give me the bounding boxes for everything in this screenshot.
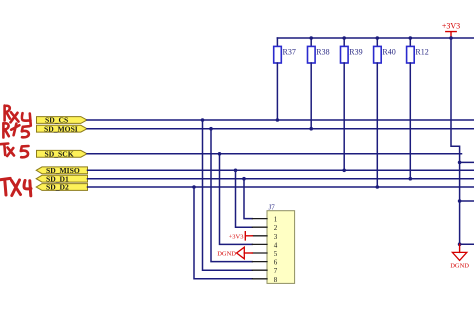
svg-text:J7: J7: [269, 203, 276, 211]
wire branch B to right edge: [460, 200, 474, 202]
wire SD_MISO to J7 pin 2: [234, 169, 253, 228]
pin 8: [252, 276, 277, 284]
annotation TX4 (handwritten): [0, 178, 31, 195]
svg-text:5: 5: [274, 250, 278, 258]
wire SD_SCK: [87, 153, 462, 155]
resistor R40: [374, 36, 396, 189]
node junction right column / branch A: [458, 161, 462, 165]
net flag SD_MISO: [36, 166, 87, 175]
wire SD_MOSI to J7 pin 6: [209, 127, 252, 262]
power symbol +3V3 (J7 pin 3): [229, 232, 253, 241]
net flag SD_D2: [36, 183, 87, 192]
ground DGND (bottom right): [450, 244, 469, 269]
svg-text:R37: R37: [283, 48, 296, 57]
resistor R38: [308, 36, 330, 130]
annotation Rx5 (handwritten): [3, 123, 29, 137]
svg-text:DGND: DGND: [217, 251, 236, 258]
svg-text:1: 1: [274, 216, 278, 224]
wire SD_CS to J7 pin 7: [201, 118, 253, 270]
wire SD_D1 to J7 pin 1: [242, 177, 252, 219]
power symbol +3V3 (top): [442, 22, 460, 39]
svg-text:SD_MOSI: SD_MOSI: [44, 124, 78, 133]
node junction right column / branch B: [458, 199, 462, 203]
wire SD_CS: [87, 119, 474, 121]
pin 3: [252, 233, 277, 241]
svg-text:3: 3: [274, 233, 278, 241]
svg-text:7: 7: [274, 267, 278, 275]
svg-text:4: 4: [274, 241, 278, 249]
net flag SD_MOSI: [37, 124, 88, 133]
svg-text:R40: R40: [382, 48, 395, 57]
svg-text:2: 2: [274, 224, 278, 232]
wire branch A to right edge: [460, 161, 474, 163]
svg-text:DGND: DGND: [450, 263, 469, 270]
wire SD_D2 to J7 pin 8: [192, 185, 252, 279]
svg-text:R39: R39: [349, 48, 362, 57]
svg-text:+3V3: +3V3: [229, 233, 244, 240]
pin 6: [252, 259, 277, 267]
resistor R37: [274, 38, 296, 122]
wire SD_SCK to J7 pin 4: [218, 152, 253, 244]
annotation Rx4 (handwritten): [5, 106, 31, 126]
net flag SD_SCK: [37, 149, 88, 158]
net flag SD_CS: [37, 116, 88, 125]
wire SD_MOSI: [87, 128, 474, 130]
annotation Tx 5 (handwritten): [1, 144, 29, 158]
resistor R39: [341, 36, 363, 172]
wire SD_D1: [88, 178, 474, 180]
svg-text:R12: R12: [415, 48, 428, 57]
svg-text:SD_D2: SD_D2: [46, 183, 69, 192]
pin 5: [252, 250, 277, 258]
svg-text:SD_SCK: SD_SCK: [45, 149, 74, 158]
resistor R12: [407, 36, 429, 180]
wire SD_D2: [88, 186, 474, 188]
pin 7: [252, 267, 277, 275]
connector J7: [267, 203, 295, 283]
svg-text:SD_CS: SD_CS: [45, 116, 68, 125]
pin 2: [252, 224, 277, 232]
wire +3V3 rail down to right column: [451, 38, 460, 244]
ground DGND (J7 pin 5): [217, 247, 252, 259]
wire +3V3 rail: [277, 37, 474, 39]
node junction right column / branch C: [458, 242, 462, 246]
wire branch C to right edge: [460, 243, 474, 245]
net flag SD_D1: [36, 174, 87, 183]
svg-text:8: 8: [274, 276, 278, 284]
svg-text:+3V3: +3V3: [442, 22, 460, 31]
node junction +3V3/rail: [449, 36, 453, 40]
wire SD_MISO: [88, 169, 474, 171]
svg-text:R38: R38: [316, 48, 329, 57]
pin 1: [252, 216, 277, 224]
pin 4: [252, 241, 277, 249]
svg-text:6: 6: [274, 259, 278, 267]
